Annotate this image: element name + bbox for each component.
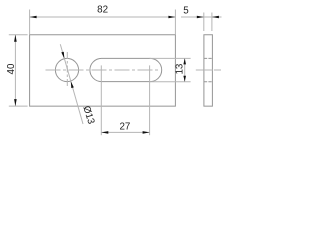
slot right center mark + extension line for 27: [149, 65, 151, 135]
dim 27 line: [101, 131, 149, 133]
dim 13 arrow bottom (points down): [183, 76, 186, 82]
circle hole Ø13: [55, 58, 78, 81]
svg-text:40: 40: [6, 63, 17, 74]
svg-text:13: 13: [175, 63, 186, 74]
dim 27 arrow right (points right): [143, 131, 150, 134]
dim 13 line: [184, 58, 186, 81]
dim 13 extension line bottom (continues slot bottom edge): [150, 81, 191, 83]
svg-text:82: 82: [97, 5, 108, 16]
dim 5 arrow right (points left): [212, 16, 219, 19]
svg-text:5: 5: [183, 5, 189, 16]
centerline vertical of circle: [66, 52, 68, 88]
dim 82 arrow left: [30, 16, 37, 19]
side view outline: [204, 35, 213, 106]
dim 13 arrow top (points up): [183, 58, 186, 64]
dim 27 arrow left (points left): [101, 131, 108, 134]
dim 82 extension line right: [174, 10, 176, 35]
dim 82 line: [30, 16, 176, 18]
leader arrow at top of circle (points down-right into circle): [61, 52, 64, 59]
dim 13 extension line top (continues slot top edge): [150, 57, 191, 59]
diameter leader line through circle: [60, 44, 83, 124]
dim 5 arrow left (points right): [197, 16, 204, 19]
dim 40 arrow bottom: [14, 99, 17, 106]
dim 5 extension line left: [203, 13, 205, 32]
plate front view outline: [30, 35, 176, 106]
leader arrow at bottom of circle (points up-left into circle): [71, 81, 74, 88]
dim 40 extension line bottom: [9, 105, 28, 107]
svg-text:27: 27: [119, 122, 130, 133]
dim 82 arrow right: [168, 16, 175, 19]
dim 5 line: [181, 16, 222, 18]
dim 40 line: [14, 35, 16, 106]
slot left center mark + extension line for 27: [100, 65, 102, 135]
centerline horizontal through circle and slot: [46, 69, 161, 71]
hidden line bottom (slot/hole bottom edge in side view): [204, 81, 213, 83]
centerline of side view: [196, 69, 221, 71]
dim 5 extension line right: [211, 13, 213, 32]
dim 40 arrow top: [14, 35, 17, 42]
slot (obround): [90, 58, 162, 81]
dim 40 extension line top: [9, 34, 28, 36]
hidden line top (slot/hole top edge in side view): [204, 57, 213, 59]
dim 82 extension line left: [29, 10, 31, 35]
